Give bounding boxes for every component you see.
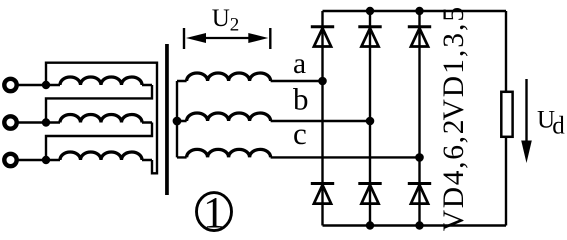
svg-text:2: 2 xyxy=(230,15,240,36)
svg-text:U: U xyxy=(212,5,230,32)
svg-text:b: b xyxy=(293,82,309,117)
svg-text:a: a xyxy=(293,48,306,80)
svg-text:1: 1 xyxy=(203,188,225,234)
svg-text:VD1,3,5: VD1,3,5 xyxy=(438,5,470,121)
svg-text:c: c xyxy=(293,116,307,151)
svg-text:d: d xyxy=(552,113,565,140)
svg-text:VD4,6,2: VD4,6,2 xyxy=(438,118,470,232)
